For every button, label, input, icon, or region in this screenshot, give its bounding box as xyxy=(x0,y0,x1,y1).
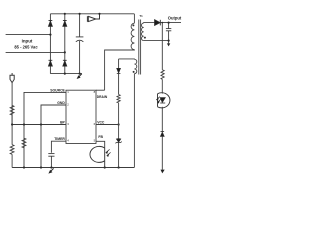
transformer T1 xyxy=(105,14,169,168)
svg-text:Input: Input xyxy=(22,39,33,44)
svg-text:GND: GND xyxy=(57,101,65,105)
wire BP bus xyxy=(12,124,66,126)
junction top rail at clamp riser xyxy=(98,13,100,15)
svg-text:TIMER: TIMER xyxy=(54,137,65,141)
wire aux return xyxy=(133,74,135,168)
junction BP bus at source line xyxy=(23,123,25,125)
diode D4 bridge bottom-right xyxy=(63,60,67,66)
svg-text:SOURCE: SOURCE xyxy=(50,88,65,92)
svg-text:Output: Output xyxy=(168,16,182,21)
wire to secondary ground xyxy=(161,136,163,169)
wire secondary bottom lead xyxy=(144,40,169,42)
junction bottom bridge rail at bulk cap xyxy=(79,73,81,75)
svg-text:4: 4 xyxy=(67,138,69,142)
wire secondary top lead xyxy=(144,22,155,24)
phase dot aux winding xyxy=(133,71,135,73)
svg-text:85 - 265 Vac: 85 - 265 Vac xyxy=(14,45,38,50)
junction lower input at right column xyxy=(64,51,66,53)
junction bottom rail at opto emitter xyxy=(104,166,106,168)
wire primary bottom lead xyxy=(105,50,135,91)
junction bottom rail at timer cap xyxy=(50,166,52,168)
resistor R5 vcc xyxy=(118,74,120,95)
diode D8 vcc zener xyxy=(116,139,122,144)
ground secondary bottom xyxy=(161,170,165,174)
label input text xyxy=(14,39,38,50)
ground secondary at cap xyxy=(168,41,170,44)
junction VCC wire at vcc chain xyxy=(118,123,120,125)
diode D3 bridge bottom-left xyxy=(49,60,53,66)
wire top rail xyxy=(50,13,134,15)
aux winding xyxy=(134,59,136,73)
junction top rail at right bridge column xyxy=(64,13,66,15)
wire primary top lead xyxy=(133,14,135,23)
resistor R3 on source line xyxy=(22,138,26,148)
capacitor C2 output xyxy=(166,23,171,41)
svg-text:FB: FB xyxy=(98,135,103,139)
resistor R2 xyxy=(10,145,14,168)
wire SOURCE pin xyxy=(24,92,66,167)
wire bottom rail xyxy=(12,167,134,169)
wire feedback from output xyxy=(161,23,163,70)
resistor R1 xyxy=(10,105,14,115)
capacitor C4 timer xyxy=(48,154,54,168)
ground primary at bridge xyxy=(79,74,82,77)
fuse / sense flag F1 xyxy=(10,73,14,83)
svg-text:DRAIN: DRAIN xyxy=(97,95,108,99)
junction output wire at feedback tap xyxy=(161,22,163,24)
diode D5 output rectifier xyxy=(155,20,161,26)
opto arrows xyxy=(106,149,111,156)
secondary winding xyxy=(141,23,143,41)
led arrows xyxy=(157,97,161,103)
wire output xyxy=(160,22,181,24)
capacitor C1 bulk xyxy=(76,14,84,74)
wire VCC pin xyxy=(96,124,119,126)
resistor R4 feedback upper xyxy=(161,70,164,94)
opto transistor U2b xyxy=(90,146,105,167)
svg-text:T1: T1 xyxy=(139,14,143,18)
wire FB pin xyxy=(96,141,105,148)
wire DRAIN pin xyxy=(96,89,105,91)
junction top rail at bulk cap xyxy=(79,13,81,15)
IC U1 xyxy=(66,90,96,143)
ground primary bottom xyxy=(51,168,54,171)
node Output at cap tap xyxy=(168,22,170,24)
opto LED U2a xyxy=(158,93,170,108)
svg-text:5: 5 xyxy=(94,138,96,142)
svg-text:2: 2 xyxy=(67,102,69,106)
diode D6 aux xyxy=(118,59,120,69)
junction bottom rail at gnd line xyxy=(40,166,42,168)
diode D1 bridge top-left xyxy=(49,21,53,27)
svg-text:3: 3 xyxy=(67,122,69,126)
wire bridge right column xyxy=(64,14,66,74)
junction bottom rail at vcc chain xyxy=(118,166,120,168)
wire left line lower xyxy=(11,115,13,145)
junction upper input at left column xyxy=(49,34,51,36)
wire bridge bottom rail xyxy=(50,73,82,75)
core xyxy=(138,20,140,75)
svg-text:6: 6 xyxy=(94,122,96,126)
diode D7 zener secondary xyxy=(161,132,165,137)
junction BP bus at gnd line xyxy=(40,123,42,125)
primary winding xyxy=(131,23,134,49)
wire input line lower xyxy=(6,51,65,53)
wire input line upper xyxy=(6,34,51,36)
wire bridge left column xyxy=(49,14,51,74)
wire GND pin xyxy=(41,105,66,168)
wire TIMER pin xyxy=(51,141,66,153)
clamp zener VR1 xyxy=(87,14,99,22)
junction bottom bridge rail at right column xyxy=(64,73,66,75)
svg-text:BP: BP xyxy=(60,121,65,125)
junction secondary return at cap xyxy=(168,40,170,42)
diode D2 bridge top-right xyxy=(63,21,67,27)
phase dot primary winding xyxy=(132,24,134,26)
aux winding top lead xyxy=(119,58,135,60)
svg-text:VCC: VCC xyxy=(97,121,105,125)
junction BP bus at divider line xyxy=(11,123,13,125)
phase dot secondary winding xyxy=(144,37,146,39)
junction bottom rail at source line xyxy=(23,166,25,168)
